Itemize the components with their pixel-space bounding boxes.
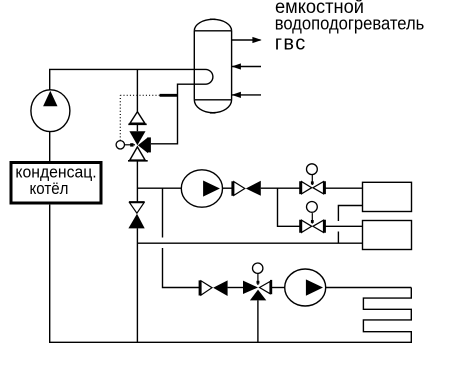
wire: middle supply riser to pump P2 [137, 187, 181, 189]
svg-text:гвс: гвс [275, 33, 306, 55]
label: емкостной водоподогреватель гвс [275, 0, 425, 55]
wire: riser segment check valve to 3-way valve [136, 124, 138, 131]
radiator RAD2 [363, 221, 412, 250]
capillary dotted line to sensor [120, 95, 159, 140]
wire: supply from pump P1 to tank coil [50, 69, 206, 90]
svg-text:котёл: котёл [30, 179, 69, 198]
pump P3 (floor circuit, flow right) [285, 269, 326, 306]
3-way valve MV2 with head [243, 263, 271, 300]
wire: 3-way valve MV2 bottom port down to return [257, 300, 259, 342]
wire: radiator valve TV2 to radiator RAD2 [325, 225, 363, 227]
arrow: cold water inlet (points left) [232, 63, 261, 69]
pump P1 (boiler circuit, flow up) [31, 90, 70, 132]
wire: branch down to floor circuit (upper) [162, 188, 164, 237]
valve V2 (half filled) [233, 181, 261, 196]
wire: branch down to radiator valve TV2 [278, 188, 301, 226]
boiler box конденсац. котёл [11, 163, 101, 204]
wire: radiator return line [137, 242, 362, 244]
radiator RAD1 [363, 182, 412, 211]
temperature sensor bar [160, 94, 178, 97]
wire: radiator valve TV1 to radiator RAD1 [325, 187, 363, 189]
label: конденсац. котёл [15, 162, 96, 198]
wire: coil return down to 3-way valve right port [151, 84, 206, 144]
radiator valve TV1 with head [300, 164, 325, 194]
pump P2 (radiator circuit, flow right) [181, 170, 222, 207]
svg-text:водоподогреватель: водоподогреватель [275, 13, 425, 33]
arrow: recirculation inlet (points left) [232, 92, 261, 98]
wire: valve V2 to radiator valve TV1 with tee [261, 187, 301, 189]
arrow: DHW outlet (points right) [232, 37, 262, 43]
wire: pump P3 to floor coil [326, 287, 412, 289]
wire: branch down to floor circuit (lower, after crossing) [163, 248, 200, 288]
radiator valve TV2 with head [300, 202, 325, 233]
wire: radiator RAD1 return elbow (gap where it crosses TV2 pipe) [338, 206, 362, 244]
wire: riser from supply line down to check valve [136, 69, 138, 111]
check valve CV1 [128, 112, 146, 125]
wire: pump P2 to valve V2 [223, 187, 233, 189]
tank: емкостной водоподогреватель [194, 19, 231, 113]
shutoff valve V1 on riser [128, 202, 144, 229]
wire: floor valve V3 to 3-way valve MV2 [228, 287, 243, 289]
wire: riser segment 3-way valve to shutoff valve [136, 161, 138, 202]
3-way mixing valve MV1 [128, 131, 151, 161]
valve V3 (floor circuit, half filled) [200, 280, 228, 296]
tank coil U-bend [206, 69, 213, 84]
actuator of valve MV1 [116, 141, 135, 149]
wire: 3-way valve MV2 to pump P3 [271, 287, 285, 289]
floor heating coil serpentine and return to boiler [50, 205, 412, 343]
wire: riser below shutoff valve to bottom return [136, 228, 138, 342]
wire: pump P1 to boiler [49, 132, 51, 161]
